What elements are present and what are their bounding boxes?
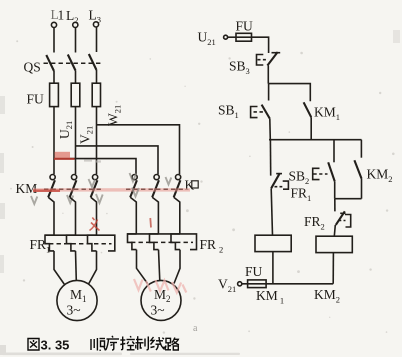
svg-text:FU: FU xyxy=(236,19,254,34)
wire L1 to QS xyxy=(53,28,55,53)
caption title hanzi xu xyxy=(106,336,119,350)
svg-text:FU: FU xyxy=(245,264,263,279)
wire U21 to FU control xyxy=(228,36,236,38)
scan smudge left edge xyxy=(0,96,5,273)
scan smudge bottom band xyxy=(0,345,240,355)
wire node 2 to FR1 contact xyxy=(269,140,271,176)
wire KM2 pole 2 to FR2 xyxy=(152,197,158,234)
wire KM1 pole 1 to FR1 xyxy=(48,197,54,235)
contactor KM2 pole 1 contact xyxy=(130,175,137,198)
svg-text:3~: 3~ xyxy=(151,303,165,318)
coil KM2 xyxy=(316,236,352,252)
wire KM1 pole 2 to FR1 xyxy=(70,197,76,235)
wire KM2 pole 3 to FR2 xyxy=(174,197,180,234)
svg-text:QS: QS xyxy=(24,60,41,75)
thermal relay FR2 linkage dashed xyxy=(131,241,193,243)
motor M1 xyxy=(57,280,97,320)
watermark gray ghost glyphs xyxy=(31,173,171,204)
thermal relay FR2 heater element 2 xyxy=(150,234,159,250)
wire SB3 to node 1 xyxy=(267,66,269,84)
fuse FU control top xyxy=(236,19,254,42)
pushbutton SB3 NC contact xyxy=(229,52,280,76)
wire W21 vertical xyxy=(96,107,98,175)
wire FR2 contact to coil KM2 xyxy=(334,225,335,236)
fuse FU pole 2 xyxy=(71,83,80,106)
wire coil KM2 to rail xyxy=(332,253,334,284)
node 1 branch to KM1 aux xyxy=(269,84,311,102)
wire branch V21 to KM2 pole 2 xyxy=(76,146,159,174)
coil KM1 xyxy=(255,235,291,251)
watermark pink letters under M2 xyxy=(134,279,186,293)
scan smudge gray dashes near V21 branch xyxy=(84,161,101,162)
thermal relay FR2 heater element 3 xyxy=(171,234,180,250)
watermark red glyph yi xyxy=(90,218,100,231)
contactor KM1 linkage dashed xyxy=(44,188,104,190)
caption figure number xyxy=(28,338,69,353)
thermal relay FR1 linkage dashed xyxy=(49,243,112,245)
wire branch W21 to KM2 pole 3 xyxy=(97,125,180,174)
wire L3 to QS xyxy=(96,27,98,52)
contactor KM2 pole 3 contact xyxy=(174,175,181,198)
watermark red blob near U21 branch xyxy=(54,152,75,159)
terminal U21 control xyxy=(198,30,228,48)
wire branch U21 to KM2 pole 1 xyxy=(54,159,136,175)
wire KM2 aux to join row xyxy=(361,179,363,199)
motor M2 xyxy=(141,280,181,320)
switch QS pole 2 blade xyxy=(68,55,76,71)
svg-text:1: 1 xyxy=(58,8,65,23)
svg-text:a: a xyxy=(193,323,198,334)
thermal contact FR1 NC xyxy=(271,173,311,203)
bottom rail xyxy=(242,283,333,285)
scan smudge right top xyxy=(393,30,400,43)
wire QS to FU pole 3 xyxy=(96,70,98,83)
svg-text:3. 35: 3. 35 xyxy=(41,338,70,353)
svg-text:FU: FU xyxy=(27,92,45,107)
contactor KM1 pole 1 contact xyxy=(48,175,55,198)
caption title hanzi xian xyxy=(151,337,165,350)
thermal relay FR1 heater element 1 xyxy=(45,235,54,251)
thermal relay FR2 heater element 1 xyxy=(128,234,137,250)
wire KM1 pole 3 to FR1 xyxy=(91,197,97,235)
pushbutton SB1 NO contact xyxy=(218,84,270,120)
caption title hanzi zhi xyxy=(136,336,149,350)
wire FU to SB3 xyxy=(252,37,269,53)
wire KM1 aux to node 2 xyxy=(310,117,312,140)
fuse FU control bottom xyxy=(245,264,266,288)
terminal L3 xyxy=(89,7,102,27)
label KM2 main degraded xyxy=(185,178,199,193)
scan noise flecks xyxy=(10,40,395,334)
caption title hanzi lu xyxy=(165,338,179,351)
wire FR1 contact to coil KM1 xyxy=(271,188,272,235)
join row SB2 KM2 xyxy=(335,198,362,200)
wire SB2 to join row xyxy=(334,181,336,198)
thermal relay FR1 heater element 3 xyxy=(88,235,97,251)
terminal L1 xyxy=(51,7,65,28)
wire FR2 to motor M2 leads xyxy=(137,250,148,284)
thermal relay FR1 heater element 2 xyxy=(67,235,76,251)
scan red speck on KM2 pole2 wire xyxy=(149,218,152,228)
contact KM1 auxiliary NO xyxy=(304,102,340,122)
watermark pink band over contacts xyxy=(33,188,190,192)
node 2 rail xyxy=(269,139,362,141)
wire QS to FU pole 1 xyxy=(53,71,55,83)
thermal contact FR2 NC xyxy=(304,211,351,231)
contact KM2 auxiliary NO xyxy=(354,140,392,184)
fuse FU pole 3 xyxy=(92,83,100,106)
contactor KM2 linkage dashed xyxy=(126,188,184,190)
wire L2 to QS xyxy=(75,28,77,53)
switch QS pole 3 blade xyxy=(89,54,97,70)
wire join row to FR2 contact xyxy=(334,199,336,212)
contactor KM1 pole 3 contact xyxy=(91,175,98,198)
terminal L2 xyxy=(66,8,79,28)
switch QS linkage dashed xyxy=(44,62,103,64)
terminal V21 control xyxy=(218,277,242,295)
wire QS to FU pole 2 xyxy=(75,71,77,84)
wire U21 vertical xyxy=(53,107,55,175)
thermal relay FR2 case top xyxy=(127,234,197,250)
thermal relay FR1 case top xyxy=(45,235,115,251)
svg-text:3~: 3~ xyxy=(67,303,81,318)
fuse FU pole 1 xyxy=(50,83,59,106)
caption title hanzi kong xyxy=(120,336,135,350)
wire coil KM1 to rail xyxy=(272,252,274,284)
wire KM2 pole 1 to FR2 xyxy=(130,197,136,234)
wire SB1 to node 2 xyxy=(269,119,272,140)
wire FR1 to motor M1 leads xyxy=(54,251,65,285)
contactor KM1 pole 2 contact xyxy=(70,175,77,198)
pushbutton SB2 NO contact xyxy=(289,140,335,186)
switch QS pole 1 blade xyxy=(46,55,54,71)
contactor KM2 pole 2 contact xyxy=(152,175,159,198)
wire V21 vertical xyxy=(75,107,77,175)
caption title hanzi shun xyxy=(91,338,106,351)
